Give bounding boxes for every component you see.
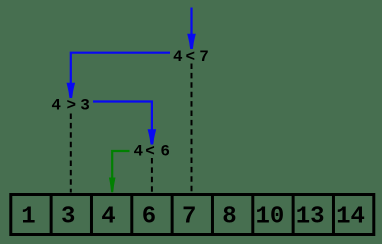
- label comparison 4 < 6: [133, 143, 170, 161]
- array cell dividers: [51, 195, 333, 235]
- svg-text:6: 6: [142, 203, 156, 230]
- svg-text:7: 7: [182, 203, 196, 230]
- svg-text:8: 8: [222, 203, 236, 230]
- label comparison 4 < 7: [173, 48, 209, 66]
- svg-text:4: 4: [173, 48, 183, 66]
- svg-text:4: 4: [101, 203, 115, 230]
- svg-text:>: >: [66, 97, 76, 115]
- svg-text:4: 4: [51, 97, 61, 115]
- svg-text:13: 13: [296, 203, 325, 230]
- dashed line from 4 < 6 to array cell 6: [151, 158, 153, 193]
- dashed line from 4 < 7 to array cell 7: [191, 64, 193, 193]
- svg-text:1: 1: [21, 203, 35, 230]
- wire: blue elbow arrow from 4 > 3 to 4 < 6: [93, 102, 156, 145]
- wire: green found arrow from 4 < 6 to array cell 4: [109, 151, 130, 192]
- svg-text:6: 6: [160, 143, 170, 161]
- svg-text:10: 10: [255, 203, 284, 230]
- array outer border: [11, 195, 374, 235]
- svg-text:7: 7: [199, 48, 209, 66]
- label comparison 4 > 3: [51, 97, 89, 115]
- array values: [21, 203, 365, 230]
- wire: initial blue arrow into 4 < 7: [187, 8, 196, 50]
- svg-text:3: 3: [61, 203, 75, 230]
- svg-text:14: 14: [336, 203, 365, 230]
- wire: blue elbow arrow from 4 < 7 to 4 > 3: [67, 53, 171, 98]
- svg-text:3: 3: [80, 97, 90, 115]
- svg-text:<: <: [185, 48, 195, 66]
- svg-text:4: 4: [133, 143, 143, 161]
- svg-text:<: <: [145, 143, 155, 161]
- dashed line from 4 > 3 to array cell 3: [70, 114, 72, 193]
